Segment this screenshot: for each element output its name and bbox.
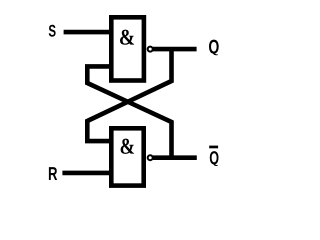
label Qbar xyxy=(210,151,219,166)
wire feedback Qbar to top gate input xyxy=(87,66,171,157)
wire Qbar output xyxy=(153,155,197,160)
wire feedback Q to bottom gate input xyxy=(87,49,171,141)
wire Q output xyxy=(153,47,197,52)
label U1 ampersand xyxy=(120,30,134,45)
nand-gate U1 body xyxy=(111,17,144,80)
overline of Qbar xyxy=(209,146,218,149)
wire S input xyxy=(64,30,112,35)
label Q xyxy=(209,40,219,56)
wire R input xyxy=(62,171,112,176)
label U2 ampersand xyxy=(121,139,135,154)
inversion bubble U2 output xyxy=(148,155,153,160)
label R xyxy=(49,167,57,180)
nand-gate U2 body xyxy=(111,128,143,185)
label S xyxy=(49,25,56,37)
inversion bubble U1 output xyxy=(148,47,153,52)
